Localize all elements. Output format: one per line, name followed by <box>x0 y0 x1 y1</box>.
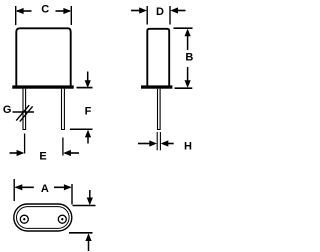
dimension A left extension line <box>13 179 15 201</box>
dimension E right arrow <box>63 150 79 156</box>
dimension D left extension line <box>146 6 148 25</box>
dimension F bottom reference line <box>70 128 93 130</box>
dimension H right extension line <box>159 132 161 150</box>
base flange (front view) <box>12 85 73 88</box>
svg-text:D: D <box>156 6 164 18</box>
dimension B bottom tick <box>175 87 193 89</box>
svg-text:E: E <box>39 150 46 162</box>
base thickness top reference line <box>73 205 96 207</box>
base flange (side view) <box>141 85 172 88</box>
svg-text:A: A <box>41 183 49 195</box>
dimension F bottom arrow (up) <box>85 130 91 144</box>
dimension E right extension line <box>62 138 64 156</box>
dimension D right arrow <box>170 7 185 13</box>
dimension D left arrow <box>131 7 147 13</box>
dimension D right extension line <box>169 6 171 25</box>
dimension H left arrow <box>138 140 157 146</box>
dimension A right extension line <box>71 184 73 205</box>
base thickness top arrow (down) <box>87 190 93 205</box>
base outline outer (top view) <box>14 204 72 231</box>
dimension F top reference line <box>77 87 93 89</box>
dimension H left extension line <box>156 132 158 150</box>
dimension C left extension line <box>15 6 17 25</box>
dimension C left arrow <box>16 8 32 14</box>
G leader line <box>13 111 35 113</box>
dimension F top arrow (down) <box>85 72 91 89</box>
base outline inner (top view) <box>17 207 70 229</box>
base thickness bottom arrow (up) <box>85 233 91 251</box>
svg-text:G: G <box>3 104 12 116</box>
dimension A right arrow <box>54 184 72 190</box>
left lead (front view) <box>23 89 27 130</box>
base thickness bottom reference line <box>69 232 93 234</box>
right lead hole ring <box>58 215 66 223</box>
dimension E left arrow <box>10 150 25 156</box>
left lead hole ring <box>20 215 28 223</box>
right lead hole center dot <box>61 218 63 220</box>
crystal body (side view) <box>147 29 169 86</box>
dimension C right arrow <box>56 8 72 14</box>
svg-text:H: H <box>184 140 192 152</box>
dimension C right extension line <box>70 6 72 25</box>
G slash 1 <box>16 105 29 120</box>
left lead hole center dot <box>23 218 25 220</box>
dimension B top arrow (up) <box>185 29 191 50</box>
dimension A left arrow <box>15 184 34 190</box>
G slash 2 <box>20 106 33 121</box>
svg-text:C: C <box>41 4 49 16</box>
lead (side view) <box>157 89 161 130</box>
dimension E left extension line <box>24 134 26 154</box>
right lead (front view) <box>61 89 65 130</box>
crystal body (front view) <box>16 28 70 86</box>
dimension B bottom arrow (down) <box>185 67 191 88</box>
svg-text:B: B <box>185 51 193 63</box>
svg-text:F: F <box>85 105 92 117</box>
dimension B top tick <box>174 27 193 29</box>
dimension H right arrow <box>161 140 174 146</box>
